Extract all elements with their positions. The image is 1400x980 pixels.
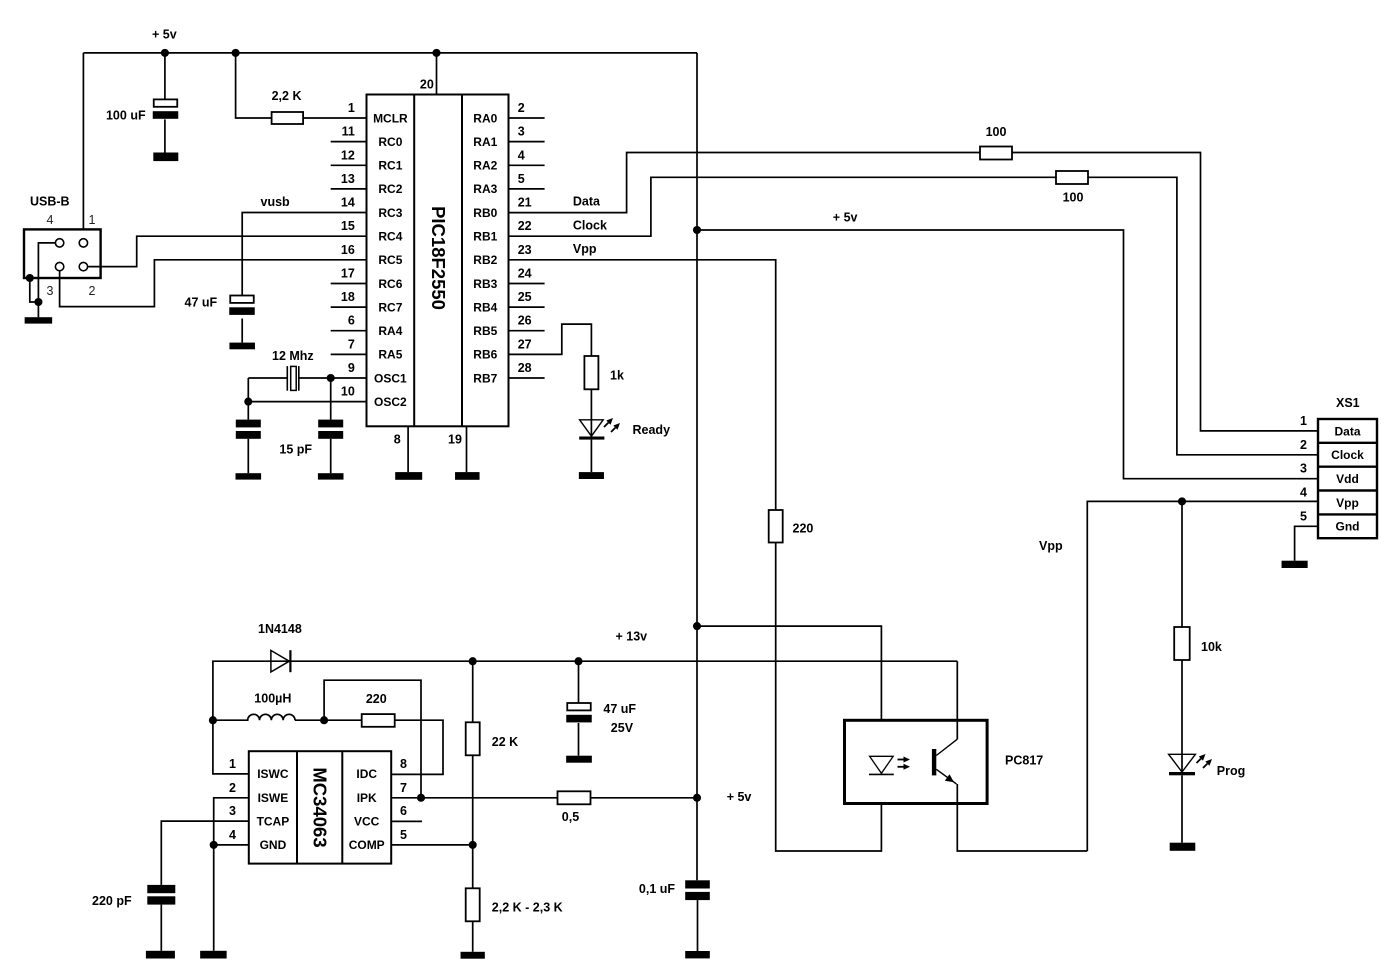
svg-text:+ 13v: + 13v	[616, 630, 648, 644]
diode D1 1N4148	[271, 650, 291, 672]
svg-text:25V: 25V	[611, 721, 634, 735]
svg-text:100: 100	[986, 125, 1007, 139]
svg-text:2: 2	[229, 781, 236, 795]
wire R3 to XS1 pin 1	[1012, 153, 1318, 431]
junction +13v / R8	[469, 657, 477, 665]
MC34063 left pin numbers 1 2 3 4	[229, 757, 236, 842]
junction GND pin 4 / ground riser	[210, 841, 218, 849]
ground (below D4)	[1170, 843, 1196, 851]
svg-text:3: 3	[229, 804, 236, 818]
LED D2 light arrows	[604, 418, 620, 432]
wire RB1 pin 22 to R4	[509, 177, 1057, 236]
svg-text:7: 7	[348, 337, 355, 351]
svg-text:MCLR: MCLR	[373, 111, 408, 125]
MC34063 right pin names IDC IPK VCC COMP	[349, 767, 385, 852]
svg-text:RB5: RB5	[473, 324, 497, 338]
svg-text:3: 3	[518, 125, 525, 139]
svg-text:1N4148: 1N4148	[258, 622, 302, 636]
wire crystal left to OSC2	[247, 378, 249, 402]
svg-text:1: 1	[348, 101, 355, 115]
svg-text:2,2 K - 2,3 K: 2,2 K - 2,3 K	[492, 901, 563, 915]
capacitor C3 15 pF (left)	[236, 402, 261, 474]
phototransistor Q1	[932, 739, 957, 784]
junction Vpp / R10	[1178, 497, 1186, 505]
svg-text:220 pF: 220 pF	[92, 894, 132, 908]
USB-B pin 4 circle	[55, 239, 63, 247]
svg-text:15: 15	[341, 219, 355, 233]
wire XS1 Gnd pin 5 to ground	[1295, 526, 1318, 560]
resistor R4 100	[1056, 171, 1088, 184]
svg-text:23: 23	[518, 243, 532, 257]
XS1 pin labels Data Clock Vdd Vpp Gnd	[1331, 424, 1364, 533]
svg-text:9: 9	[348, 361, 355, 375]
resistor R1 2,2 K	[272, 112, 304, 124]
svg-text:6: 6	[348, 314, 355, 328]
ground (MC34063 GND)	[200, 951, 227, 959]
junction +5v / opto LED anode	[693, 622, 701, 630]
svg-text:5: 5	[400, 828, 407, 842]
svg-text:MC34063: MC34063	[309, 767, 330, 847]
svg-text:VCC: VCC	[354, 814, 380, 828]
wire OSC1 pin 9 stub	[299, 377, 367, 379]
svg-text:OSC1: OSC1	[374, 371, 407, 385]
svg-text:0,5: 0,5	[562, 810, 579, 824]
svg-text:RB4: RB4	[473, 300, 497, 314]
svg-text:10: 10	[341, 385, 355, 399]
ground (below C3)	[236, 473, 262, 479]
svg-text:RA2: RA2	[473, 159, 497, 173]
wire GND pin 4 stub	[214, 844, 249, 846]
LED D2 Ready	[579, 420, 604, 440]
svg-text:15 pF: 15 pF	[279, 442, 312, 456]
svg-text:5: 5	[1300, 509, 1307, 523]
connector J1 USB-B body	[24, 229, 101, 278]
svg-text:TCAP: TCAP	[257, 814, 290, 828]
svg-text:16: 16	[341, 243, 355, 257]
junction COMP / divider	[469, 841, 477, 849]
svg-text:22 K: 22 K	[492, 735, 518, 749]
svg-text:19: 19	[448, 432, 462, 446]
wire Q1 emitter to Vpp riser	[957, 784, 1087, 851]
svg-text:RC0: RC0	[378, 135, 402, 149]
svg-text:12 Mhz: 12 Mhz	[272, 349, 314, 363]
capacitor C5 47 uF 25V	[566, 661, 592, 756]
svg-text:26: 26	[518, 314, 532, 328]
wire pin 19 to ground	[466, 426, 468, 472]
ground (below C1)	[153, 153, 178, 162]
LED D4 light arrows	[1197, 754, 1213, 768]
svg-text:RA1: RA1	[473, 135, 497, 149]
junction IPK / bootstrap	[417, 794, 425, 802]
wire diode cathode to +13v rail	[290, 660, 957, 662]
svg-text:RA5: RA5	[378, 348, 402, 362]
junction OSC2 / C3	[244, 398, 252, 406]
ground (pin 8)	[395, 472, 422, 480]
svg-text:RA3: RA3	[473, 182, 497, 196]
wire USB pin 1 to +5v rail	[82, 53, 84, 239]
wire +5v to R1	[236, 53, 272, 118]
svg-text:11: 11	[342, 125, 355, 139]
junction OSC1 / C4	[327, 374, 335, 382]
svg-text:5: 5	[518, 172, 525, 186]
wire +5v to pin 20	[436, 53, 438, 95]
svg-text:22: 22	[518, 219, 532, 233]
ground (below C6)	[146, 951, 175, 959]
junction +5v rail / 100uF	[161, 49, 169, 57]
svg-text:RA4: RA4	[378, 324, 402, 338]
resistor R7 0,5	[558, 791, 591, 804]
svg-text:XS1: XS1	[1336, 396, 1360, 410]
resistor R8 22 K	[466, 661, 480, 845]
capacitor C6 220 pF	[147, 885, 175, 951]
connector XS1 body	[1318, 419, 1377, 538]
svg-text:21: 21	[518, 196, 532, 210]
wire RB6 pin 27 to R2	[509, 324, 592, 356]
svg-text:24: 24	[518, 267, 532, 281]
svg-text:Vpp: Vpp	[1336, 496, 1359, 510]
wire R6 to IDC pin 8	[391, 720, 443, 774]
svg-text:RB3: RB3	[473, 277, 497, 291]
svg-text:ISWE: ISWE	[258, 791, 289, 805]
svg-text:220: 220	[793, 522, 814, 536]
wire +5v to opto LED anode	[697, 626, 881, 774]
PIC left pin stubs RC0 RC1 RC2 RC6 RC7 RA4 RA5	[331, 142, 367, 355]
svg-text:2: 2	[518, 101, 525, 115]
resistor R2 1k	[584, 356, 598, 389]
svg-text:3: 3	[47, 284, 54, 298]
svg-text:+ 5v: + 5v	[727, 790, 752, 804]
svg-text:+ 5v: + 5v	[833, 210, 858, 224]
svg-text:0,1 uF: 0,1 uF	[639, 882, 675, 896]
svg-text:Data: Data	[573, 195, 601, 209]
svg-text:vusb: vusb	[261, 195, 291, 209]
svg-text:OSC2: OSC2	[374, 395, 407, 409]
wire OSC2 pin 10 stub	[248, 401, 366, 403]
svg-text:4: 4	[518, 148, 525, 162]
wire inductor to R6	[295, 719, 362, 721]
LED D4 Prog	[1169, 754, 1196, 775]
svg-text:27: 27	[518, 337, 532, 351]
inductor L1 100uH	[213, 714, 295, 720]
svg-text:RC3: RC3	[378, 206, 402, 220]
svg-text:Vpp: Vpp	[1039, 539, 1063, 553]
svg-text:1: 1	[89, 213, 96, 227]
wire D2 to ground	[590, 440, 592, 473]
MC34063 right pin numbers 8 7 6 5	[400, 757, 407, 842]
PIC left pin names MCLR..OSC2	[373, 111, 408, 409]
svg-text:14: 14	[341, 196, 355, 210]
svg-text:RB1: RB1	[473, 230, 497, 244]
capacitor C7 0,1 uF	[685, 880, 710, 951]
ground (USB)	[25, 317, 53, 323]
junction +5v / IPK sense	[693, 794, 701, 802]
wire RB0 pin 21 to R3	[509, 153, 981, 213]
resistor R5 220 (vertical)	[769, 510, 783, 543]
resistor R10 10k	[1174, 627, 1190, 660]
wire Q1 collector to +13v	[956, 661, 958, 739]
USB-B pin numbers 4 1 3 2	[47, 213, 96, 298]
ground (below C4)	[318, 473, 344, 479]
svg-text:Ready: Ready	[633, 423, 671, 437]
wire D4 to ground	[1181, 775, 1183, 842]
wire R7 to +5v	[591, 797, 698, 799]
resistor R3 100	[980, 147, 1012, 160]
ground (below C2)	[229, 343, 255, 350]
svg-text:PC817: PC817	[1005, 754, 1043, 768]
ground (below D2)	[579, 472, 604, 479]
wire R1 to MCLR pin 1	[303, 117, 366, 119]
svg-text:RB6: RB6	[473, 348, 497, 362]
svg-text:25: 25	[518, 290, 532, 304]
svg-text:Vdd: Vdd	[1336, 472, 1359, 486]
PIC right pin names RA0..RB7	[473, 111, 497, 385]
svg-text:RC6: RC6	[378, 277, 402, 291]
svg-text:1: 1	[1300, 414, 1307, 428]
wire USB pin 2 to RC4 pin 15	[88, 236, 367, 266]
svg-text:GND: GND	[260, 838, 287, 852]
svg-text:IPK: IPK	[357, 791, 377, 805]
svg-text:4: 4	[229, 828, 236, 842]
wire R2 to LED D2	[590, 389, 592, 436]
wire pin 8 to ground	[407, 426, 409, 472]
svg-text:12: 12	[341, 148, 355, 162]
resistor R9 2,2 K - 2,3 K	[466, 845, 480, 952]
IC U2 MC34063 body	[249, 751, 391, 863]
USB-B pin 3 circle	[55, 262, 63, 270]
wire bootstrap loop to IPK pin 7	[324, 680, 421, 798]
svg-text:COMP: COMP	[349, 838, 385, 852]
USB-B pin 2 circle	[79, 262, 87, 270]
wire R10 to LED D4	[1181, 660, 1183, 772]
svg-text:28: 28	[518, 361, 532, 375]
wire Vpp to R10	[1181, 501, 1183, 627]
svg-text:47 uF: 47 uF	[603, 702, 636, 716]
svg-text:+ 5v: + 5v	[152, 28, 177, 42]
ground (pin 19)	[455, 472, 480, 480]
svg-text:RC2: RC2	[378, 182, 402, 196]
svg-text:8: 8	[400, 757, 407, 771]
svg-text:6: 6	[400, 804, 407, 818]
svg-text:Clock: Clock	[573, 219, 607, 233]
svg-text:220: 220	[366, 692, 387, 706]
svg-text:2: 2	[1300, 438, 1307, 452]
svg-text:RC7: RC7	[378, 300, 402, 314]
svg-text:IDC: IDC	[356, 767, 377, 781]
crystal X1 12 Mhz	[287, 366, 299, 391]
svg-text:2,2 K: 2,2 K	[272, 89, 302, 103]
junction +5v / Vdd branch	[693, 226, 701, 234]
svg-text:7: 7	[400, 781, 407, 795]
ground (below C7)	[685, 951, 710, 958]
ground (below R9)	[461, 952, 485, 959]
svg-text:RB0: RB0	[473, 206, 497, 220]
svg-text:10k: 10k	[1201, 640, 1222, 654]
IC U1 PIC18F2550 body	[367, 95, 509, 427]
wire COMP pin 5 to divider	[391, 844, 473, 846]
junction shield/pin4 ground	[34, 298, 42, 306]
wire ISWC pin 1 riser to diode anode	[213, 661, 291, 774]
wire Vpp riser to XS1 pin 4	[1087, 501, 1318, 851]
ground (below C5)	[566, 756, 592, 763]
junction +5v rail / pin 20	[432, 49, 440, 57]
junction +5v rail / R1 branch	[232, 49, 240, 57]
wire RB2 pin 23 to R5 (Vpp drive)	[509, 260, 776, 510]
svg-text:Vpp: Vpp	[573, 242, 597, 256]
junction shield at connector body	[26, 274, 34, 282]
wire OSC1 to crystal	[248, 377, 287, 379]
optocoupler U3 PC817 body	[845, 720, 988, 803]
capacitor C4 15 pF (right)	[318, 378, 343, 473]
svg-text:4: 4	[47, 213, 54, 227]
svg-text:Gnd: Gnd	[1336, 520, 1360, 534]
svg-text:1: 1	[229, 757, 236, 771]
junction inductor / bootstrap loop	[320, 716, 328, 724]
wire VCC pin 6 stub	[391, 820, 422, 822]
PIC right pin numbers 2 3 4 5 21 22 23 24 25 26 27 28	[518, 101, 532, 375]
wire USB pin 3 to RC5 pin 16	[60, 260, 367, 307]
svg-text:1k: 1k	[610, 368, 624, 382]
svg-text:ISWC: ISWC	[257, 767, 289, 781]
svg-text:USB-B: USB-B	[30, 195, 70, 209]
wire TCAP pin 3 to C6	[161, 821, 249, 885]
ground (XS1 Gnd)	[1282, 561, 1308, 568]
svg-text:20: 20	[420, 78, 434, 92]
wire R4 to XS1 pin 2	[1088, 177, 1318, 455]
wire R5 to opto LED cathode	[776, 543, 882, 852]
wire USB shield to ground	[30, 278, 39, 302]
PIC left pin numbers 1 11 12 13 14 15 16 17 18 6 7 9 10	[341, 101, 355, 399]
svg-text:13: 13	[341, 172, 355, 186]
XS1 pin numbers 1 2 3 4 5	[1300, 414, 1307, 523]
opto LED D3	[869, 756, 894, 774]
svg-text:RA0: RA0	[473, 111, 497, 125]
wire +5v main vertical	[696, 53, 698, 880]
junction inductor / ISWC riser	[209, 716, 217, 724]
svg-text:Clock: Clock	[1331, 448, 1364, 462]
svg-text:17: 17	[341, 267, 355, 281]
svg-text:RC1: RC1	[378, 159, 402, 173]
capacitor C2 47 uF (vusb)	[229, 296, 255, 343]
junction +13v / C5	[574, 657, 582, 665]
wire IPK pin 7 to R7	[391, 797, 557, 799]
svg-text:Data: Data	[1334, 424, 1360, 438]
svg-text:8: 8	[394, 432, 401, 446]
svg-text:47 uF: 47 uF	[185, 296, 218, 310]
opto light arrows	[898, 757, 911, 770]
wire +5v top rail	[83, 52, 697, 54]
wire USB pin 4 to ground	[38, 243, 55, 317]
svg-text:3: 3	[1300, 462, 1307, 476]
svg-text:RC5: RC5	[378, 253, 402, 267]
svg-text:100: 100	[1063, 191, 1084, 205]
svg-text:PIC18F2550: PIC18F2550	[428, 206, 449, 310]
svg-text:2: 2	[89, 284, 96, 298]
svg-text:Prog: Prog	[1217, 764, 1245, 778]
resistor R6 220 (horizontal)	[362, 714, 395, 727]
MC34063 left pin names ISWC ISWE TCAP GND	[257, 767, 290, 852]
svg-text:100 uF: 100 uF	[106, 109, 146, 123]
svg-text:100µH: 100µH	[254, 692, 291, 706]
svg-text:4: 4	[1300, 486, 1307, 500]
USB-B pin 1 circle	[79, 239, 87, 247]
svg-text:RB2: RB2	[473, 253, 497, 267]
svg-text:18: 18	[341, 290, 355, 304]
svg-text:RB7: RB7	[473, 371, 497, 385]
wire +5v to XS1 Vdd pin 3	[697, 230, 1318, 479]
wire RC3 pin 14 to C2 (vusb)	[242, 213, 366, 296]
wire ISWE pin 2 / GND pin 4 to ground	[214, 798, 249, 951]
svg-text:RC4: RC4	[378, 230, 402, 244]
PIC right pin stubs RA0 RA1 RA2 RA3 RB3 RB4 RB5 RB7	[509, 118, 545, 378]
capacitor C1 100 uF	[153, 53, 179, 153]
